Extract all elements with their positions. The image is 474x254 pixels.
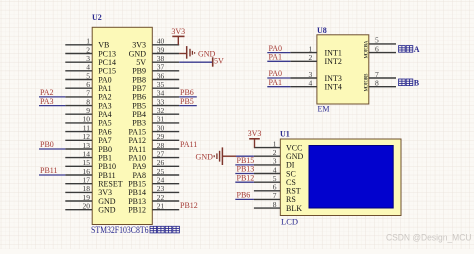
svg-text:40: 40 [157,37,165,46]
svg-text:PA1: PA1 [98,84,112,93]
svg-text:PA5: PA5 [98,119,112,128]
svg-text:29: 29 [157,132,165,141]
svg-text:5: 5 [86,71,90,80]
U1 pin numbers 1-8 [273,139,277,209]
svg-text:PB11: PB11 [98,171,116,180]
svg-text:9: 9 [86,106,90,115]
svg-text:RS: RS [286,195,296,204]
svg-text:PC13: PC13 [98,49,116,58]
svg-text:35: 35 [157,80,165,89]
IC U2 STM32F103C8T6 body [92,27,152,224]
svg-text:PB11: PB11 [40,166,58,175]
svg-text:36: 36 [157,71,165,80]
wire 5V (U2 pin 38) [179,61,213,63]
svg-text:26: 26 [157,158,165,167]
svg-text:3: 3 [309,70,313,79]
svg-text:INT2: INT2 [325,57,342,66]
svg-text:PB6: PB6 [237,191,251,200]
svg-text:5V: 5V [214,57,224,66]
power port 5V [213,57,224,67]
U8 left pins 1-4 stubs [290,53,317,87]
svg-text:2: 2 [273,148,277,157]
ground GND (U1 pin 2) [196,147,223,165]
wire net PA1 (U8 pin 4) [267,86,290,88]
svg-text:PB1: PB1 [98,153,112,162]
svg-text:19: 19 [83,193,91,202]
svg-text:8: 8 [273,200,277,209]
svg-text:2: 2 [86,45,90,54]
svg-text:PA3: PA3 [40,97,54,106]
svg-text:PA11: PA11 [180,140,197,149]
U8 pin names INT1-INT4 [325,48,342,91]
wire net PA2 (U2 pin 7) [39,96,65,98]
svg-text:7: 7 [375,70,379,79]
svg-text:VB: VB [98,41,109,50]
svg-text:GND: GND [286,152,304,161]
svg-text:PA6: PA6 [98,127,112,136]
svg-text:25: 25 [157,167,165,176]
svg-text:PB12: PB12 [128,206,146,215]
svg-text:LCD: LCD [281,217,298,227]
power port 3V3 (U2 pin 40) [171,27,185,45]
IC U8 EM motor connector body [317,35,369,104]
U2 left pin numbers 1-20 [83,37,91,211]
svg-text:15: 15 [83,158,91,167]
svg-text:3V3: 3V3 [171,27,185,36]
svg-text:GND: GND [196,152,214,161]
svg-text:2: 2 [309,53,313,62]
svg-text:PB9: PB9 [132,67,146,76]
wire net PB12 (U1 pin 5) [235,181,254,183]
svg-text:MOTORA: MOTORA [364,40,369,58]
svg-text:20: 20 [83,202,91,211]
svg-text:1: 1 [86,37,90,46]
svg-text:A: A [414,45,420,54]
svg-text:PB0: PB0 [40,140,54,149]
svg-text:BLK: BLK [286,204,302,213]
svg-text:7: 7 [273,191,277,200]
wire net PB11 (U2 pin 16) [39,174,65,176]
svg-text:16: 16 [83,167,91,176]
svg-text:PA4: PA4 [98,110,112,119]
svg-text:INT3: INT3 [325,74,342,83]
svg-text:GND: GND [98,197,116,206]
ground GND (U2 pin 39) [179,46,215,59]
net label motor-A (dianji A) [399,45,420,54]
svg-text:11: 11 [83,123,90,132]
svg-text:PB5: PB5 [180,97,194,106]
svg-text:4: 4 [273,165,277,174]
svg-text:PA1: PA1 [269,53,283,62]
svg-text:PA12: PA12 [129,136,147,145]
svg-text:GND: GND [198,50,216,59]
svg-text:PB7: PB7 [132,84,146,93]
wire net PB6 (U2 pin 34) [179,96,197,98]
svg-text:PA0: PA0 [98,75,112,84]
net label motor-B (dianji B) [399,79,420,88]
svg-text:12: 12 [83,132,91,141]
wire net PA0 (U8 pin 1) [267,52,290,54]
svg-text:7: 7 [86,89,90,98]
svg-text:PB8: PB8 [132,75,146,84]
U8 right pins 5-8 stubs [369,44,396,87]
svg-text:37: 37 [157,63,165,72]
svg-text:6: 6 [86,80,90,89]
svg-text:30: 30 [157,123,165,132]
U2 left pins 1-20 stubs [65,45,92,210]
svg-text:PC15: PC15 [98,67,116,76]
U8 left pin numbers [309,44,313,87]
LCD screen area [309,146,393,209]
svg-text:PB3: PB3 [132,119,146,128]
svg-text:PB12: PB12 [180,201,198,210]
svg-text:PA15: PA15 [129,127,147,136]
wire net PB0 (U2 pin 13) [39,148,65,150]
svg-text:PB12: PB12 [237,173,255,182]
svg-text:MOTORB: MOTORB [364,73,369,92]
svg-text:27: 27 [157,149,165,158]
svg-text:PA1: PA1 [269,78,283,87]
svg-text:31: 31 [157,115,165,124]
svg-text:17: 17 [83,176,91,185]
svg-text:22: 22 [157,193,165,202]
svg-text:4: 4 [86,63,90,72]
U2 value label STM32F103C8T6 minimal-system [91,225,179,235]
svg-text:B: B [414,79,420,88]
svg-text:CSDN @Design_MCU: CSDN @Design_MCU [386,232,472,243]
svg-text:RESET: RESET [98,180,123,189]
svg-text:PB6: PB6 [132,93,146,102]
svg-text:INT1: INT1 [325,48,342,57]
U2 left pin names [98,41,123,215]
svg-text:4: 4 [309,79,313,88]
wire net PA1 (U8 pin 2) [267,60,290,62]
svg-text:PB4: PB4 [132,110,146,119]
svg-text:PA10: PA10 [129,153,147,162]
svg-text:8: 8 [375,79,379,88]
svg-text:PB15: PB15 [128,180,146,189]
power port 3V3 (U1 pin 1) [248,129,262,148]
svg-text:U2: U2 [92,13,102,22]
svg-text:3V3: 3V3 [248,129,262,138]
svg-text:PB6: PB6 [180,88,194,97]
svg-text:PA9: PA9 [133,162,147,171]
U1 pin names [286,143,304,213]
wire GND to U1 pin 2 [236,155,254,157]
svg-text:PB13: PB13 [237,165,255,174]
svg-text:PA8: PA8 [133,171,147,180]
IC U1 LCD module body [280,139,401,216]
wire net PB6 (U1 pin 7) [235,198,254,200]
svg-text:PA7: PA7 [98,136,112,145]
wire net PB13 (U1 pin 4) [235,173,254,175]
svg-text:PB10: PB10 [98,162,116,171]
svg-text:EM: EM [318,105,330,114]
wire net PA0 (U8 pin 3) [267,77,290,79]
svg-text:1: 1 [309,44,313,53]
wire net PA3 (U2 pin 8) [39,105,65,107]
U2 right pin numbers 40-21 [157,37,165,211]
svg-text:34: 34 [157,89,165,98]
U2 right pins 40-21 stubs [152,45,179,210]
svg-text:STM32F103C8T6: STM32F103C8T6 [91,225,149,235]
svg-text:PB13: PB13 [128,197,146,206]
svg-text:3V3: 3V3 [132,41,146,50]
svg-text:PA0: PA0 [269,69,283,78]
U8 right pin numbers [375,36,379,88]
svg-text:PA0: PA0 [269,44,283,53]
svg-text:32: 32 [157,106,165,115]
svg-text:GND: GND [98,206,116,215]
svg-text:39: 39 [157,45,165,54]
svg-text:6: 6 [375,44,379,53]
svg-text:GND: GND [129,49,147,58]
U2 right pin names [128,41,146,215]
svg-text:10: 10 [83,115,91,124]
svg-text:21: 21 [157,202,165,211]
wire net PB15 (U1 pin 3) [235,164,254,166]
wire net PB5 (U2 pin 33) [179,105,197,107]
svg-text:SC: SC [286,169,296,178]
svg-text:PA2: PA2 [98,93,112,102]
U1 pins 1-8 stubs [254,148,280,209]
svg-text:INT4: INT4 [325,83,342,92]
svg-text:PA2: PA2 [40,88,54,97]
svg-text:U1: U1 [280,130,290,139]
svg-text:14: 14 [83,149,91,158]
svg-text:5: 5 [375,36,379,45]
svg-text:U8: U8 [317,26,327,35]
svg-text:24: 24 [157,176,165,185]
